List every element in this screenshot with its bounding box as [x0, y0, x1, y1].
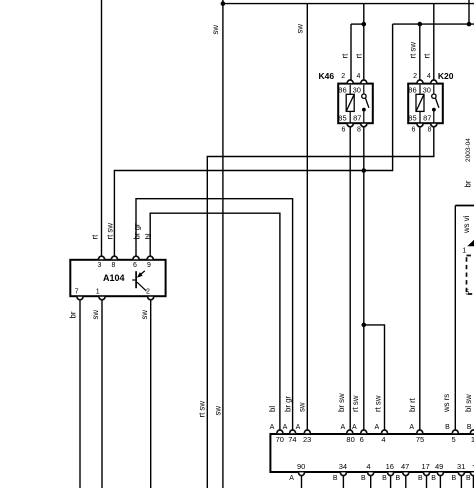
svg-text:30: 30	[353, 86, 361, 95]
bump A104 pin1	[99, 297, 105, 300]
node junction K46 pin4 bus	[362, 22, 367, 27]
svg-text:bl: bl	[144, 233, 153, 239]
relay K20 switch	[432, 85, 439, 123]
wire connector B17 down	[426, 476, 428, 488]
svg-text:9: 9	[147, 262, 151, 269]
svg-text:br: br	[69, 311, 78, 318]
wire connector last down	[472, 476, 474, 488]
right component arrow	[467, 240, 474, 247]
svg-text:80: 80	[346, 435, 354, 444]
svg-text:B: B	[431, 475, 436, 482]
svg-text:rt: rt	[422, 53, 431, 59]
svg-text:A: A	[374, 424, 379, 431]
svg-text:47: 47	[401, 462, 409, 471]
svg-text:1: 1	[96, 289, 100, 296]
wire A104 pin 6 br gr to connector 74	[136, 199, 293, 431]
svg-text:rt sw: rt sw	[373, 395, 382, 412]
wire K46 pin 2 drop	[350, 24, 352, 81]
svg-text:B: B	[418, 475, 423, 482]
bump A104 pin2	[148, 297, 154, 300]
svg-text:4: 4	[427, 73, 431, 80]
svg-text:5: 5	[452, 435, 456, 444]
wire connector B31 down	[460, 476, 462, 488]
wire A104 pin 9 bl to connector 70	[150, 213, 280, 430]
wire bus segment y24 K46	[351, 23, 364, 25]
wire branch to connector 4	[364, 325, 385, 431]
svg-text:6: 6	[412, 127, 416, 134]
svg-text:sw: sw	[91, 310, 100, 320]
wire rt sw horizontal to A104 pin 8	[114, 171, 363, 258]
node junction top sw	[221, 1, 226, 6]
bump connector B17	[424, 472, 430, 475]
svg-text:B: B	[451, 475, 456, 482]
svg-text:4: 4	[356, 73, 360, 80]
connector top numbers	[276, 435, 474, 444]
svg-text:30: 30	[423, 86, 431, 95]
svg-text:sw: sw	[211, 25, 220, 35]
wire sw vertical x223	[222, 0, 224, 488]
svg-text:17: 17	[422, 462, 430, 471]
bump connector B47	[403, 472, 409, 475]
svg-text:sw: sw	[140, 310, 149, 320]
svg-text:A: A	[352, 424, 357, 431]
svg-text:B: B	[361, 475, 366, 482]
svg-text:B: B	[333, 475, 338, 482]
svg-text:sw: sw	[297, 402, 306, 412]
wire K20 pin 4 drop	[433, 4, 435, 82]
wire right box edge to connector 5	[454, 206, 456, 431]
svg-text:bl sw: bl sw	[464, 394, 473, 412]
svg-text:2: 2	[146, 289, 150, 296]
svg-text:rt sw: rt sw	[197, 401, 206, 418]
svg-text:br: br	[463, 180, 472, 187]
bump A104 pin7	[77, 297, 83, 300]
relay K46 switch	[362, 85, 369, 123]
svg-text:2: 2	[413, 73, 417, 80]
wire riser right edge x469	[468, 0, 470, 24]
svg-text:br gr: br gr	[133, 223, 142, 239]
svg-text:A: A	[270, 424, 275, 431]
svg-text:br gr: br gr	[283, 396, 292, 412]
svg-text:8: 8	[428, 127, 432, 134]
svg-text:49: 49	[435, 462, 443, 471]
wire connector B34 down	[342, 476, 344, 488]
svg-text:K20: K20	[438, 71, 454, 81]
svg-text:sw: sw	[213, 406, 222, 416]
relay K46 coil	[346, 85, 354, 123]
bump connector A70	[277, 430, 283, 433]
wire K20 pin 6 to connector 75	[419, 125, 421, 430]
connector station T-box	[270, 434, 474, 472]
wire connector A90 down	[301, 476, 303, 488]
right component box	[455, 205, 474, 207]
svg-text:rt sw: rt sw	[351, 395, 360, 412]
svg-text:31: 31	[457, 462, 465, 471]
svg-text:6: 6	[342, 127, 346, 134]
svg-text:A104: A104	[103, 273, 125, 283]
transistor symbol inside A104	[132, 271, 146, 291]
wire connector B49 down	[439, 476, 441, 488]
node junction branch 4	[362, 323, 367, 328]
bump K46 pin8	[361, 124, 367, 127]
bump A104 pin3	[99, 256, 105, 259]
svg-text:85: 85	[408, 113, 416, 122]
svg-text:B: B	[466, 475, 471, 482]
wire K46 pin 4 drop	[363, 4, 365, 82]
bump connector A75	[417, 430, 423, 433]
bump K20 pin2	[417, 80, 423, 83]
bump connector A74	[290, 430, 296, 433]
bump connector B31	[458, 472, 464, 475]
svg-text:rt sw: rt sw	[408, 42, 417, 59]
svg-text:85: 85	[338, 113, 346, 122]
bump K46 pin6	[347, 124, 353, 127]
bump K46 pin4	[361, 80, 367, 83]
svg-text:A: A	[296, 424, 301, 431]
bump connector B4b	[368, 472, 374, 475]
svg-text:2003-04: 2003-04	[465, 138, 472, 162]
svg-text:ws vi: ws vi	[462, 215, 471, 234]
node junction rt sw A104	[362, 168, 367, 173]
bump connector A23	[304, 430, 310, 433]
wire K20 pin 2 drop	[419, 24, 421, 81]
svg-text:A: A	[283, 424, 288, 431]
wire rt to A104 pin 3	[101, 0, 103, 258]
relay K20	[408, 84, 443, 124]
wire K46 pin 8 to connector 6	[363, 125, 365, 430]
bump connector B1	[470, 430, 474, 433]
wire riser between relays x392.6	[364, 24, 393, 170]
svg-text:7: 7	[75, 289, 79, 296]
wire sw drop x307	[306, 4, 308, 431]
svg-text:4: 4	[381, 435, 385, 444]
relay K20 coil	[416, 85, 424, 123]
svg-text:4: 4	[366, 462, 370, 471]
svg-text:86: 86	[338, 86, 346, 95]
bump connector B34	[340, 472, 346, 475]
bump A104 pin9	[147, 256, 153, 259]
connector bottom letters	[289, 475, 471, 482]
svg-text:34: 34	[339, 462, 347, 471]
bump connector A6	[361, 430, 367, 433]
bump K20 pin6	[417, 124, 423, 127]
right component dashed connector	[467, 256, 474, 295]
control unit A104	[70, 260, 165, 296]
svg-text:A: A	[409, 424, 414, 431]
wire K20 pin 8 to rt sw bottom	[207, 125, 433, 488]
svg-text:rt: rt	[90, 234, 99, 240]
svg-text:86: 86	[408, 86, 416, 95]
svg-text:bl: bl	[268, 406, 277, 412]
wire connector B4 down	[370, 476, 372, 488]
svg-text:6: 6	[133, 262, 137, 269]
bump connector B5	[452, 430, 458, 433]
bump K46 pin2	[347, 80, 353, 83]
svg-text:1: 1	[462, 248, 466, 255]
svg-text:2: 2	[341, 73, 345, 80]
bump K20 pin4	[431, 80, 437, 83]
node junction K20 pin2 bus	[418, 22, 423, 27]
svg-text:B: B	[382, 475, 387, 482]
svg-text:br sw: br sw	[337, 393, 346, 412]
svg-text:A: A	[340, 424, 345, 431]
wire A104 pin 2 sw	[150, 300, 152, 488]
svg-text:rt sw: rt sw	[105, 223, 114, 240]
wire connector B47 down	[405, 476, 407, 488]
svg-text:87: 87	[423, 113, 431, 122]
bump A104 pin8	[111, 256, 117, 259]
connector top letters	[270, 424, 472, 431]
wire top bus 30	[223, 3, 474, 5]
svg-text:rt: rt	[354, 53, 363, 59]
wire A104 pin 1 sw	[101, 300, 103, 488]
svg-text:75: 75	[416, 435, 424, 444]
bump A104 pin6	[133, 256, 139, 259]
svg-text:87: 87	[353, 113, 361, 122]
svg-text:23: 23	[303, 435, 311, 444]
bump connector A4	[382, 430, 388, 433]
svg-text:A: A	[289, 475, 294, 482]
svg-text:90: 90	[297, 462, 305, 471]
svg-text:sw: sw	[296, 24, 305, 34]
node junction right riser	[467, 22, 472, 27]
svg-text:74: 74	[288, 435, 296, 444]
svg-text:6: 6	[360, 435, 364, 444]
svg-text:8: 8	[357, 127, 361, 134]
svg-text:rt: rt	[341, 53, 350, 59]
bump connector A80	[347, 430, 353, 433]
wire K46 pin 6 to connector 80	[349, 125, 351, 430]
bump connector Blast	[470, 472, 474, 475]
svg-text:5: 5	[465, 290, 469, 297]
wire A104 pin 7 br	[79, 300, 81, 488]
svg-text:8: 8	[111, 262, 115, 269]
svg-text:K46: K46	[319, 71, 335, 81]
svg-text:70: 70	[276, 435, 284, 444]
svg-text:B: B	[445, 424, 450, 431]
wire connector B16 down	[390, 476, 392, 488]
svg-text:B: B	[395, 475, 400, 482]
bump connector B16	[388, 472, 394, 475]
wire bus segment y24 right	[393, 23, 474, 25]
relay K46	[338, 84, 373, 124]
svg-text:3: 3	[98, 262, 102, 269]
rotated wire labels	[69, 24, 473, 418]
bump connector A90	[299, 472, 305, 475]
svg-text:16: 16	[386, 462, 394, 471]
bump K20 pin8	[431, 124, 437, 127]
svg-text:ws rs: ws rs	[442, 394, 451, 413]
connector bottom numbers	[297, 461, 474, 471]
bump connector B49	[437, 472, 443, 475]
svg-text:br rt: br rt	[408, 397, 417, 412]
pin bumps	[77, 80, 474, 476]
svg-text:B: B	[467, 424, 472, 431]
